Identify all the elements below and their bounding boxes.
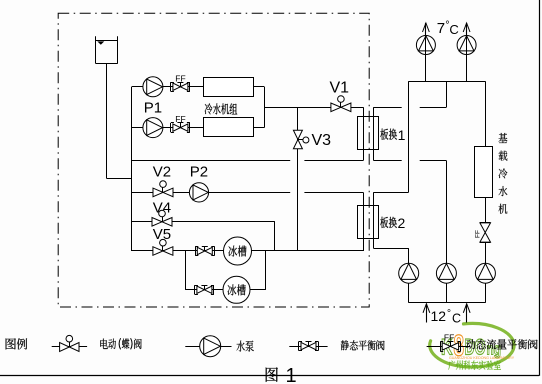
svg-text:FF: FF bbox=[444, 333, 454, 343]
svg-text:1: 1 bbox=[398, 127, 406, 143]
svg-text:C: C bbox=[449, 22, 458, 37]
svg-text:2: 2 bbox=[398, 215, 406, 231]
svg-text:FF: FF bbox=[175, 114, 185, 124]
svg-text:1: 1 bbox=[286, 365, 297, 384]
svg-text:12: 12 bbox=[431, 308, 447, 324]
svg-text:°: ° bbox=[447, 309, 451, 320]
svg-text:P1: P1 bbox=[144, 100, 162, 117]
svg-text:7: 7 bbox=[437, 20, 445, 37]
svg-text:V2: V2 bbox=[153, 164, 171, 181]
svg-text:V4: V4 bbox=[153, 199, 171, 216]
svg-text:V3: V3 bbox=[312, 132, 332, 149]
svg-text:FF: FF bbox=[175, 73, 185, 83]
svg-text:V5: V5 bbox=[153, 226, 171, 243]
svg-text:FF: FF bbox=[475, 230, 482, 238]
svg-text:GUANGZHOU KEDONG LABORATORY: GUANGZHOU KEDONG LABORATORY bbox=[449, 356, 515, 360]
svg-text:V1: V1 bbox=[330, 79, 350, 96]
svg-text:P2: P2 bbox=[190, 164, 208, 181]
svg-text:C: C bbox=[452, 311, 461, 325]
